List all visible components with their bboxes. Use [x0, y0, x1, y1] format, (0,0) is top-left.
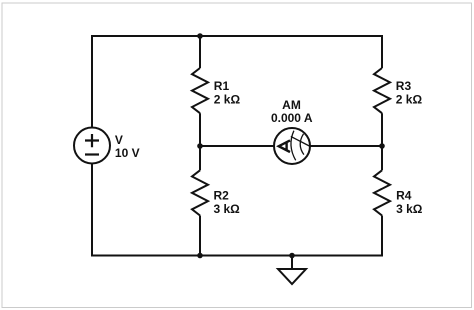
svg-text:V: V: [115, 133, 123, 147]
wire: ground stub: [291, 256, 293, 270]
ground symbol: [278, 269, 306, 284]
svg-text:0.000 A: 0.000 A: [271, 111, 313, 125]
svg-text:3 kΩ: 3 kΩ: [396, 202, 423, 216]
wire: bridge wire left (node to ammeter): [200, 145, 274, 147]
junction dot: bottom rail / ground: [289, 253, 295, 259]
junction dot: right rail / bridge wire: [379, 143, 385, 149]
ammeter AM scale arc outer: [300, 134, 304, 155]
wire: middle branch lower (R2 to bottom rail): [199, 216, 201, 256]
svg-text:R2: R2: [214, 188, 230, 202]
wire: bridge wire right (ammeter to right rail): [310, 145, 382, 147]
resistor R2: [192, 170, 208, 215]
junction dot: bottom rail / middle branch: [197, 253, 203, 259]
resistor R4: [374, 170, 390, 215]
voltage source V minus sign: [85, 153, 99, 155]
wire: left rail upper + top rail + right rail upper: [92, 36, 382, 128]
resistor R3: [374, 68, 390, 113]
svg-text:2 kΩ: 2 kΩ: [214, 93, 241, 107]
svg-text:10 V: 10 V: [115, 146, 140, 160]
wire: right rail middle segment (R3 to R4 through node): [381, 113, 383, 170]
svg-text:AM: AM: [282, 98, 301, 112]
svg-text:R1: R1: [214, 79, 230, 93]
svg-text:R4: R4: [396, 188, 412, 202]
resistor R1: [192, 68, 208, 113]
junction dot: middle branch / bridge wire: [197, 143, 203, 149]
wire: middle branch upper (top rail to R1): [199, 36, 201, 68]
svg-text:R3: R3: [396, 79, 412, 93]
svg-text:3 kΩ: 3 kΩ: [214, 202, 241, 216]
ammeter AM scale arc inner: [291, 131, 296, 161]
voltage source V body: [74, 128, 110, 164]
ammeter AM needle: [291, 136, 311, 146]
ammeter AM body: [274, 128, 310, 164]
wire: middle branch middle segment (R1 to R2 through node): [199, 113, 201, 170]
voltage source V plus sign: [85, 134, 99, 147]
svg-text:2 kΩ: 2 kΩ: [396, 93, 423, 107]
junction dot: top rail / middle branch: [197, 33, 203, 39]
ammeter AM letter A (rotated 90° CCW, apex pointing left): [279, 140, 290, 152]
wire: left rail lower + bottom rail + right rail lower: [92, 164, 382, 256]
